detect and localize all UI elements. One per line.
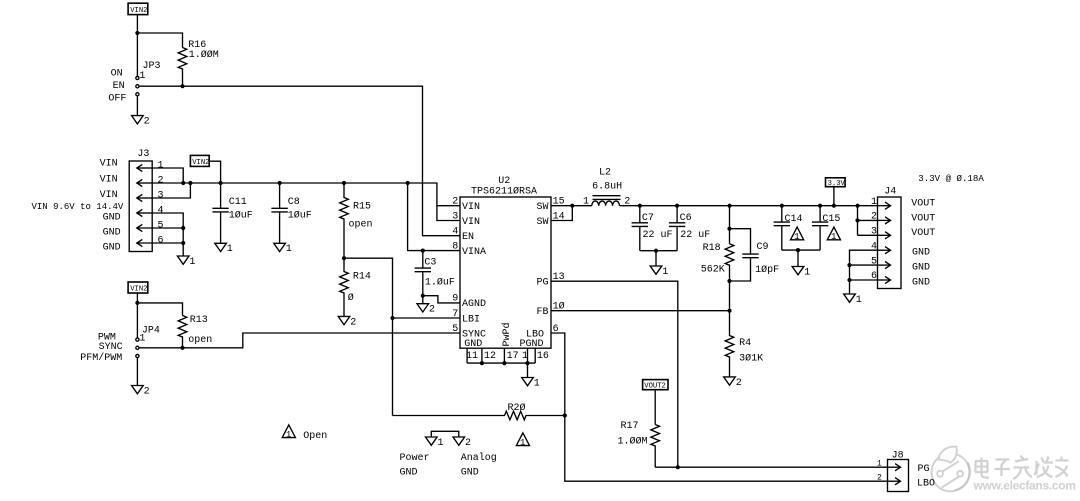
svg-text:GND: GND bbox=[912, 263, 930, 274]
wire branch to R16 top bbox=[137, 33, 182, 48]
svg-text:VIN 9.6V to 14.4V: VIN 9.6V to 14.4V bbox=[32, 202, 124, 212]
capacitor C8 bbox=[271, 183, 311, 243]
pin 3 arrow of J3 bbox=[137, 190, 164, 201]
pin 7 LBI of U2 bbox=[452, 309, 480, 326]
svg-text:2: 2 bbox=[871, 212, 877, 223]
svg-text:4: 4 bbox=[871, 241, 877, 252]
svg-text:1ØpF: 1ØpF bbox=[755, 264, 779, 276]
pin 11 stub of U2 bbox=[466, 348, 478, 363]
pin 2 arrow of J3 bbox=[137, 175, 164, 186]
node junction C14/C15 gnd bbox=[796, 248, 800, 252]
ground U2 PGND (type 1) bbox=[522, 378, 540, 390]
pin 17 stub of U2 bbox=[504, 348, 518, 363]
wire SW pin15 to L2 bbox=[551, 205, 592, 207]
node junction R16 bottom on EN wire bbox=[180, 84, 184, 88]
svg-text:12: 12 bbox=[484, 351, 496, 362]
svg-text:PG: PG bbox=[537, 278, 549, 289]
svg-text:3: 3 bbox=[158, 190, 164, 201]
wire FB net from U2 pin10 bbox=[551, 310, 730, 312]
jumper JP4 bbox=[136, 326, 160, 358]
node junction LBI branch bbox=[390, 316, 394, 320]
pin 2 arrow of J4 bbox=[871, 212, 891, 224]
pin 6 arrow of J3 bbox=[137, 235, 183, 246]
node junction C3 top on VINA wire bbox=[421, 249, 425, 253]
pin 4 EN of U2 bbox=[452, 227, 474, 244]
svg-text:6: 6 bbox=[158, 235, 164, 246]
inductor L2 6.8uH bbox=[583, 168, 630, 208]
wire C3 bottom to ground bbox=[422, 296, 424, 304]
svg-text:17: 17 bbox=[507, 351, 519, 362]
ground C3 (type 2) bbox=[417, 304, 435, 316]
svg-text:1.ØØM: 1.ØØM bbox=[189, 49, 219, 61]
ground R14 (type 2) bbox=[338, 316, 356, 328]
ground JP4 (type 2) bbox=[132, 386, 150, 398]
svg-text:3: 3 bbox=[871, 227, 877, 238]
svg-text:1: 1 bbox=[158, 160, 164, 171]
svg-text:1: 1 bbox=[286, 430, 291, 440]
svg-text:R14: R14 bbox=[353, 272, 371, 283]
jumper JP3 bbox=[136, 61, 161, 96]
wire PG net from U2 pin13 bbox=[551, 281, 678, 467]
warning triangle legend Open bbox=[282, 425, 327, 442]
svg-text:1: 1 bbox=[286, 244, 292, 255]
svg-text:open: open bbox=[188, 335, 212, 346]
wire ground collector under U2 bbox=[467, 362, 535, 364]
pin 2 arrow of J8 bbox=[877, 473, 901, 484]
power flag VIN2 (top, net EN source) bbox=[128, 3, 148, 15]
wire SW pin14 tie bbox=[551, 206, 572, 221]
svg-text:1: 1 bbox=[831, 232, 836, 242]
svg-text:Power: Power bbox=[400, 453, 430, 464]
svg-text:6.8uH: 6.8uH bbox=[592, 182, 622, 193]
wire LBO net from U2 pin6 bbox=[551, 333, 888, 481]
wire EN net: JP3 pin2 to U2 EN pin bbox=[139, 86, 460, 236]
wire JP3 pin3 to ground bbox=[136, 96, 138, 116]
svg-text:2: 2 bbox=[429, 305, 435, 316]
pin 16 stub of U2 bbox=[535, 348, 549, 363]
capacitor C14 bbox=[774, 206, 803, 250]
pin 1 stub of U2 bbox=[522, 348, 528, 363]
node junction R15/R14/LBI bbox=[342, 256, 346, 260]
svg-text:VOUT: VOUT bbox=[911, 228, 935, 239]
wire C14/C15 ground rail bbox=[782, 249, 820, 251]
node junction R18 branch on bus bbox=[727, 204, 731, 208]
capacitor C3 bbox=[415, 251, 455, 296]
svg-text:VIN: VIN bbox=[462, 217, 480, 228]
pin 10 FB of U2 bbox=[537, 301, 565, 319]
ground legend power (type 1) bbox=[426, 437, 444, 449]
wire J4 gnd rows tie bbox=[850, 250, 878, 294]
pin 1 arrow of J4 bbox=[871, 197, 891, 210]
svg-text:R18: R18 bbox=[703, 243, 721, 254]
svg-text:R13: R13 bbox=[190, 315, 208, 326]
svg-text:GND: GND bbox=[912, 277, 930, 288]
svg-text:1: 1 bbox=[520, 438, 525, 448]
resistor R4 bbox=[725, 311, 763, 377]
pin 3 arrow of J4 bbox=[871, 227, 891, 239]
svg-text:C7: C7 bbox=[642, 213, 654, 224]
svg-text:VIN: VIN bbox=[100, 190, 118, 201]
svg-text:11: 11 bbox=[466, 351, 478, 362]
pin 5 SYNC of U2 bbox=[452, 324, 486, 341]
svg-text:VOUT: VOUT bbox=[911, 199, 935, 210]
svg-text:LBI: LBI bbox=[462, 314, 480, 325]
resistor R20 horizontal bbox=[393, 402, 565, 420]
pin 3 VIN of U2 bbox=[452, 211, 480, 228]
resistor R13 bbox=[178, 315, 212, 348]
pin 4 arrow of J4 bbox=[871, 241, 891, 253]
label Power GND bbox=[400, 453, 430, 478]
wire J3 pin1 down to pin2 net bbox=[152, 168, 183, 183]
node junction pin12 bbox=[480, 361, 484, 365]
node junction C8 on bus bbox=[278, 181, 282, 185]
svg-text:1: 1 bbox=[189, 257, 195, 268]
pin 9 AGND of U2 bbox=[452, 294, 486, 311]
svg-text:2: 2 bbox=[350, 317, 356, 328]
svg-text:1: 1 bbox=[534, 378, 540, 389]
node junction R18/C9 bottom bbox=[727, 279, 731, 283]
ground J4 (type 1) bbox=[844, 294, 862, 306]
node junction pin5 bbox=[181, 226, 185, 230]
svg-text:4: 4 bbox=[452, 227, 458, 238]
svg-text:4: 4 bbox=[158, 205, 164, 216]
pin 4 arrow of J3 bbox=[137, 205, 164, 216]
wire R18 bottom to FB node bbox=[729, 281, 731, 311]
svg-text:16: 16 bbox=[537, 351, 549, 362]
capacitor C6 bbox=[669, 206, 710, 251]
wire row5 to J4 bbox=[850, 264, 878, 266]
svg-text:GND: GND bbox=[103, 227, 121, 238]
node junction C6 bbox=[675, 204, 679, 208]
svg-text:Ø: Ø bbox=[348, 292, 354, 304]
svg-text:22 uF: 22 uF bbox=[643, 230, 673, 241]
node junction pin1/pin2 bbox=[181, 181, 185, 185]
svg-text:2: 2 bbox=[158, 175, 164, 186]
svg-text:PwPd: PwPd bbox=[501, 322, 513, 346]
node junction R18/C9 top bbox=[727, 227, 731, 231]
node junction pin17 bbox=[502, 361, 506, 365]
svg-text:1: 1 bbox=[139, 333, 145, 344]
connector J3 bbox=[129, 149, 152, 252]
svg-text:SW: SW bbox=[537, 202, 549, 213]
node junction 3.3V flag bbox=[832, 204, 836, 208]
wire junction to LBI drop bbox=[344, 258, 393, 415]
node junction C7/C6 gnd bbox=[654, 249, 658, 253]
resistor R15 bbox=[340, 183, 373, 258]
svg-text:L2: L2 bbox=[599, 168, 611, 179]
svg-text:GND: GND bbox=[103, 212, 121, 223]
svg-text:PG: PG bbox=[918, 464, 930, 475]
wire branch to R13 top bbox=[137, 303, 182, 316]
svg-text:EN: EN bbox=[113, 81, 125, 92]
wire VIN2 flag to bus bbox=[209, 161, 220, 183]
capacitor C15 bbox=[812, 206, 841, 250]
watermark logo circle bbox=[932, 447, 970, 492]
pin 5 arrow of J3 bbox=[137, 220, 183, 231]
svg-text:VOUT: VOUT bbox=[911, 213, 935, 224]
svg-text:J8: J8 bbox=[892, 451, 904, 462]
node junction C3 bottom / AGND bbox=[421, 294, 425, 298]
resistor R18 bbox=[701, 243, 734, 281]
ground C7/C6 (type 1) bbox=[650, 266, 668, 278]
svg-text:VOUT2: VOUT2 bbox=[644, 383, 666, 391]
watermark chinese glyphs bbox=[975, 456, 1069, 480]
svg-text:22 uF: 22 uF bbox=[680, 230, 710, 241]
svg-text:3Ø1K: 3Ø1K bbox=[739, 353, 763, 365]
connector J4 bbox=[878, 186, 902, 288]
svg-text:SW: SW bbox=[537, 217, 549, 228]
warning triangle 1 at C15 bbox=[827, 227, 840, 242]
svg-text:R17: R17 bbox=[621, 421, 639, 432]
svg-text:GND: GND bbox=[103, 242, 121, 253]
node junction R20/LBO bbox=[563, 413, 567, 417]
svg-text:1.ØuF: 1.ØuF bbox=[425, 277, 455, 289]
svg-text:C14: C14 bbox=[785, 214, 803, 225]
power flag VIN2 (at J3) bbox=[190, 155, 209, 167]
wire C3 bottom to AGND pin bbox=[423, 296, 460, 303]
svg-text:5: 5 bbox=[452, 324, 458, 335]
node junction row2 bbox=[855, 218, 859, 222]
svg-text:1: 1 bbox=[871, 197, 877, 208]
svg-text:1: 1 bbox=[794, 232, 799, 242]
svg-text:2: 2 bbox=[736, 378, 742, 389]
svg-text:GND: GND bbox=[461, 467, 479, 478]
wire row3 to J4 bbox=[858, 234, 878, 236]
svg-text:5: 5 bbox=[871, 256, 877, 267]
svg-text:AGND: AGND bbox=[462, 299, 486, 310]
ground C14/C15 (type 1) bbox=[792, 267, 810, 279]
power flag 3.3V bbox=[826, 178, 846, 206]
pin 12 stub of U2 bbox=[482, 348, 496, 363]
svg-text:1: 1 bbox=[856, 295, 862, 306]
pin 13 PG of U2 bbox=[537, 272, 565, 289]
node junction C7 bbox=[638, 204, 642, 208]
svg-text:3: 3 bbox=[452, 211, 458, 222]
svg-text:VINA: VINA bbox=[462, 247, 486, 258]
svg-text:Analog: Analog bbox=[461, 452, 497, 464]
svg-text:www.elecfans.com: www.elecfans.com bbox=[973, 479, 1076, 493]
svg-text:1: 1 bbox=[877, 459, 882, 468]
node junction C14 bbox=[780, 204, 784, 208]
wire row2 to J4 bbox=[858, 219, 878, 221]
pin 6 arrow of J4 bbox=[871, 271, 891, 283]
svg-text:SYNC: SYNC bbox=[99, 342, 123, 353]
node junction row6 bbox=[847, 278, 851, 282]
svg-text:VIN2: VIN2 bbox=[130, 286, 147, 294]
svg-text:C8: C8 bbox=[288, 197, 300, 208]
wire to ground bbox=[655, 251, 657, 266]
node junction pin6 bbox=[181, 241, 185, 245]
wire VIN2 flag to JP3 pin1 bbox=[136, 15, 138, 77]
svg-text:U2: U2 bbox=[498, 176, 510, 187]
svg-text:1.ØØM: 1.ØØM bbox=[618, 436, 648, 448]
node junction R13 bottom on SYNC wire bbox=[180, 346, 184, 350]
svg-text:FB: FB bbox=[537, 307, 549, 318]
svg-text:5: 5 bbox=[158, 220, 164, 231]
node junction flag/C11 on bus bbox=[219, 181, 223, 185]
svg-text:J3: J3 bbox=[137, 149, 149, 160]
svg-text:TPS6211ØRSA: TPS6211ØRSA bbox=[471, 186, 537, 198]
svg-text:3.3V @ Ø.18A: 3.3V @ Ø.18A bbox=[918, 173, 984, 184]
svg-text:2: 2 bbox=[144, 117, 150, 128]
node junction R15 on bus bbox=[342, 181, 346, 185]
svg-text:1: 1 bbox=[804, 267, 810, 278]
svg-text:7: 7 bbox=[452, 309, 458, 320]
node junction pin1 bbox=[525, 361, 529, 365]
svg-text:2: 2 bbox=[465, 438, 471, 449]
warning triangle 1 at C14 bbox=[791, 227, 804, 242]
wire R17 bottom to PG net / J8 pin1 bbox=[655, 466, 887, 468]
wire LBI branch to U2 pin7 bbox=[393, 317, 461, 319]
node junction FB bbox=[727, 309, 731, 313]
svg-text:GND: GND bbox=[912, 248, 930, 259]
svg-text:1: 1 bbox=[522, 351, 528, 362]
svg-text:VIN2: VIN2 bbox=[130, 7, 147, 15]
resistor R16 bbox=[178, 40, 219, 86]
label Analog GND bbox=[461, 452, 497, 478]
svg-text:1: 1 bbox=[139, 71, 145, 82]
ground C8 (type 1) bbox=[274, 243, 292, 255]
svg-text:1: 1 bbox=[662, 267, 668, 278]
pin 6 LBO of U2 bbox=[526, 324, 559, 341]
node junction SW tie bbox=[570, 204, 574, 208]
pin 5 arrow of J4 bbox=[871, 256, 891, 268]
svg-text:2: 2 bbox=[877, 473, 882, 482]
svg-text:VIN: VIN bbox=[100, 159, 118, 170]
svg-text:J4: J4 bbox=[884, 186, 896, 197]
warning triangle 1 near R20 bbox=[516, 433, 529, 448]
ground J3 (type 1) bbox=[177, 256, 195, 268]
node junction J4 vout tie bbox=[855, 204, 859, 208]
svg-text:2: 2 bbox=[144, 386, 150, 397]
pin 15 SW of U2 bbox=[537, 197, 565, 214]
wire to ground bbox=[797, 250, 799, 266]
svg-text:LBO: LBO bbox=[917, 479, 935, 490]
svg-text:1: 1 bbox=[438, 438, 444, 449]
pin 2 VIN of U2 bbox=[452, 197, 480, 214]
wire J3 pin4 down to gnd rail bbox=[152, 213, 183, 256]
node junction R13 branch bbox=[135, 301, 139, 305]
svg-text:C6: C6 bbox=[680, 213, 692, 224]
svg-text:Open: Open bbox=[303, 431, 327, 442]
pin 1 arrow of J3 bbox=[137, 160, 164, 171]
svg-text:1ØuF: 1ØuF bbox=[229, 210, 253, 222]
ground JP3 (type 2) bbox=[132, 116, 150, 128]
wire VIN2 flag to JP4 pin1 bbox=[136, 293, 138, 338]
svg-text:VIN: VIN bbox=[462, 202, 480, 213]
ground legend bracket bbox=[431, 431, 459, 437]
node junction PG/R17 bbox=[676, 465, 680, 469]
wire C7/C6 ground rail bbox=[640, 250, 677, 252]
connector J8 bbox=[888, 451, 909, 492]
ground legend analog (type 2) bbox=[453, 437, 471, 449]
svg-text:C11: C11 bbox=[229, 197, 247, 208]
svg-text:R4: R4 bbox=[739, 338, 751, 349]
wire bus drop to U2 pin3 bbox=[437, 206, 460, 221]
svg-text:open: open bbox=[349, 219, 373, 230]
power flag VOUT2 bbox=[643, 380, 668, 391]
resistor R14 bbox=[340, 258, 371, 316]
wire J3 pin3 up to bus bbox=[152, 183, 190, 198]
svg-text:EN: EN bbox=[462, 232, 474, 243]
svg-text:VIN2: VIN2 bbox=[192, 159, 209, 167]
node junction row5 bbox=[847, 263, 851, 267]
svg-text:ON: ON bbox=[111, 68, 123, 79]
svg-text:VIN: VIN bbox=[100, 175, 118, 186]
ground C11 (type 1) bbox=[215, 243, 233, 255]
power flag VIN2 (at JP4) bbox=[128, 282, 148, 294]
pin 8 VINA of U2 bbox=[452, 241, 486, 258]
svg-text:PFM/PWM: PFM/PWM bbox=[80, 352, 122, 364]
svg-text:1: 1 bbox=[583, 197, 589, 208]
svg-text:1: 1 bbox=[227, 244, 233, 255]
capacitor C7 bbox=[632, 206, 673, 251]
svg-text:1ØuF: 1ØuF bbox=[288, 210, 312, 222]
svg-text:3.3V: 3.3V bbox=[828, 180, 846, 188]
svg-text:GND: GND bbox=[400, 467, 418, 478]
svg-text:OFF: OFF bbox=[108, 94, 126, 105]
svg-text:R15: R15 bbox=[353, 202, 371, 213]
wire VOUT2 flag to R17 bbox=[654, 390, 656, 425]
svg-text:C15: C15 bbox=[822, 214, 840, 225]
wire VINA net from bus junction bbox=[408, 183, 460, 251]
svg-text:562K: 562K bbox=[701, 264, 725, 275]
wire output bus L2 to J4 pin1 bbox=[620, 205, 878, 207]
resistor R17 bbox=[618, 421, 660, 467]
svg-text:C3: C3 bbox=[424, 258, 436, 269]
wire JP4 pin3 to ground bbox=[136, 358, 138, 386]
node junction VINA on bus bbox=[406, 181, 410, 185]
ground R4 (type 2) bbox=[724, 377, 742, 389]
wire VIN2 bus from J3 pin2 to U2 bbox=[152, 183, 460, 206]
wire bus down to R18/C9 bbox=[729, 206, 731, 244]
pin 14 SW of U2 bbox=[537, 211, 565, 228]
svg-text:PGND: PGND bbox=[520, 339, 544, 350]
op-amp U2 TPS62110RSA body bbox=[460, 176, 551, 348]
capacitor C9 bbox=[730, 229, 780, 281]
svg-text:C9: C9 bbox=[757, 242, 769, 253]
wire to U2 ground bbox=[527, 363, 529, 377]
wire J4 rows 1-3 tie bbox=[857, 206, 859, 236]
capacitor C11 bbox=[212, 183, 252, 243]
node junction C15 bbox=[818, 204, 822, 208]
svg-text:6: 6 bbox=[871, 271, 877, 282]
svg-text:2: 2 bbox=[452, 197, 458, 208]
svg-text:R2Ø: R2Ø bbox=[508, 402, 526, 414]
pin 1 arrow of J8 bbox=[877, 459, 901, 470]
wire SYNC net: JP4 pin2 to U2 SYNC pin bbox=[139, 333, 460, 348]
node junction at R16 branch bbox=[135, 31, 139, 35]
node junction pin3/bus bbox=[188, 181, 192, 185]
wire row6 to J4 bbox=[850, 279, 878, 281]
